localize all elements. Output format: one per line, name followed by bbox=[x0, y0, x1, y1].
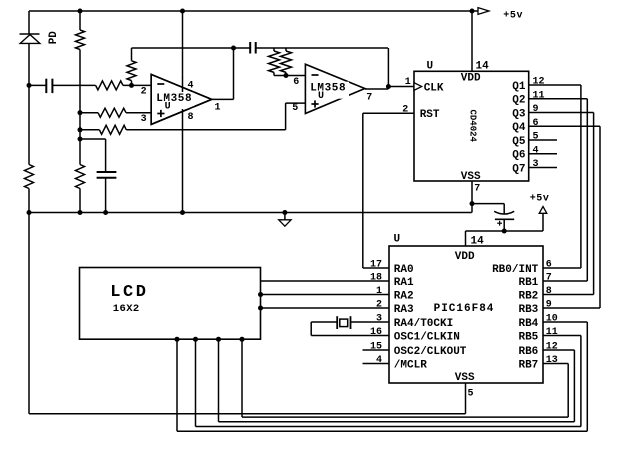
svg-text:18: 18 bbox=[370, 273, 382, 284]
svg-text:2: 2 bbox=[141, 86, 147, 97]
svg-text:8: 8 bbox=[546, 286, 552, 297]
svg-text:RB1: RB1 bbox=[518, 277, 538, 289]
svg-text:RB6: RB6 bbox=[518, 346, 538, 358]
svg-text:3: 3 bbox=[376, 314, 382, 325]
svg-text:U: U bbox=[427, 60, 434, 72]
svg-text:/MCLR: /MCLR bbox=[394, 359, 427, 371]
svg-text:Q3: Q3 bbox=[512, 108, 526, 120]
svg-text:VDD: VDD bbox=[455, 251, 475, 263]
svg-text:5: 5 bbox=[468, 389, 474, 400]
svg-text:13: 13 bbox=[546, 355, 558, 366]
svg-text:RB7: RB7 bbox=[518, 359, 538, 371]
svg-text:Q1: Q1 bbox=[512, 81, 526, 93]
svg-text:14: 14 bbox=[471, 235, 485, 247]
svg-text:16: 16 bbox=[370, 327, 382, 338]
svg-text:6: 6 bbox=[533, 118, 539, 129]
svg-text:11: 11 bbox=[546, 327, 558, 338]
svg-text:RA1: RA1 bbox=[394, 277, 414, 289]
svg-text:LM358: LM358 bbox=[310, 83, 346, 95]
svg-text:7: 7 bbox=[546, 273, 552, 284]
svg-text:RB4: RB4 bbox=[518, 318, 538, 330]
svg-text:15: 15 bbox=[370, 342, 382, 353]
svg-text:1: 1 bbox=[405, 77, 411, 88]
svg-text:CD4024: CD4024 bbox=[468, 110, 478, 143]
svg-text:1: 1 bbox=[215, 103, 221, 114]
svg-text:RA3: RA3 bbox=[394, 304, 414, 316]
svg-text:4: 4 bbox=[188, 81, 194, 92]
svg-text:Q4: Q4 bbox=[512, 122, 526, 134]
svg-text:7: 7 bbox=[366, 92, 372, 103]
svg-text:3: 3 bbox=[141, 114, 147, 125]
svg-text:VSS: VSS bbox=[455, 372, 475, 384]
svg-text:Q7: Q7 bbox=[512, 163, 525, 175]
svg-text:RB2: RB2 bbox=[518, 290, 538, 302]
svg-text:VSS: VSS bbox=[461, 171, 481, 183]
svg-text:OSC2/CLKOUT: OSC2/CLKOUT bbox=[394, 346, 467, 358]
svg-text:Q5: Q5 bbox=[512, 136, 526, 148]
svg-text:4: 4 bbox=[376, 355, 382, 366]
svg-text:RB5: RB5 bbox=[518, 331, 538, 343]
svg-text:3: 3 bbox=[533, 159, 539, 170]
svg-text:RB0/INT: RB0/INT bbox=[492, 264, 539, 276]
svg-text:Q6: Q6 bbox=[512, 150, 525, 162]
svg-text:14: 14 bbox=[476, 60, 490, 72]
svg-text:12: 12 bbox=[533, 77, 545, 88]
svg-text:LCD: LCD bbox=[110, 283, 148, 302]
svg-text:5: 5 bbox=[292, 103, 298, 114]
svg-text:8: 8 bbox=[188, 112, 194, 123]
svg-text:U: U bbox=[165, 101, 171, 112]
svg-text:10: 10 bbox=[546, 314, 558, 325]
svg-text:9: 9 bbox=[533, 104, 539, 115]
svg-text:RB3: RB3 bbox=[518, 304, 538, 316]
svg-text:7: 7 bbox=[474, 183, 480, 194]
svg-text:Q2: Q2 bbox=[512, 95, 525, 107]
svg-text:RST: RST bbox=[420, 109, 440, 121]
svg-text:12: 12 bbox=[546, 342, 558, 353]
svg-text:PIC16F84: PIC16F84 bbox=[434, 303, 495, 315]
svg-text:U: U bbox=[394, 233, 401, 245]
svg-text:2: 2 bbox=[376, 300, 382, 311]
svg-text:9: 9 bbox=[546, 300, 552, 311]
svg-text:RA2: RA2 bbox=[394, 290, 414, 302]
svg-text:6: 6 bbox=[293, 77, 299, 88]
svg-text:U: U bbox=[318, 91, 324, 102]
svg-text:1: 1 bbox=[376, 286, 382, 297]
svg-text:+5v: +5v bbox=[503, 11, 523, 22]
svg-text:RA0: RA0 bbox=[394, 264, 414, 276]
svg-text:+5v: +5v bbox=[530, 194, 550, 205]
svg-text:PD: PD bbox=[48, 31, 60, 45]
svg-text:4: 4 bbox=[533, 145, 539, 156]
svg-text:OSC1/CLKIN: OSC1/CLKIN bbox=[394, 331, 460, 343]
svg-text:LM358: LM358 bbox=[156, 93, 192, 105]
svg-text:RA4/T0CKI: RA4/T0CKI bbox=[394, 318, 453, 330]
svg-text:17: 17 bbox=[370, 260, 382, 271]
svg-text:VDD: VDD bbox=[461, 73, 481, 85]
svg-text:6: 6 bbox=[546, 260, 552, 271]
svg-text:16X2: 16X2 bbox=[113, 303, 140, 315]
svg-text:CLK: CLK bbox=[424, 82, 444, 94]
svg-text:5: 5 bbox=[533, 132, 539, 143]
svg-text:11: 11 bbox=[533, 90, 545, 101]
